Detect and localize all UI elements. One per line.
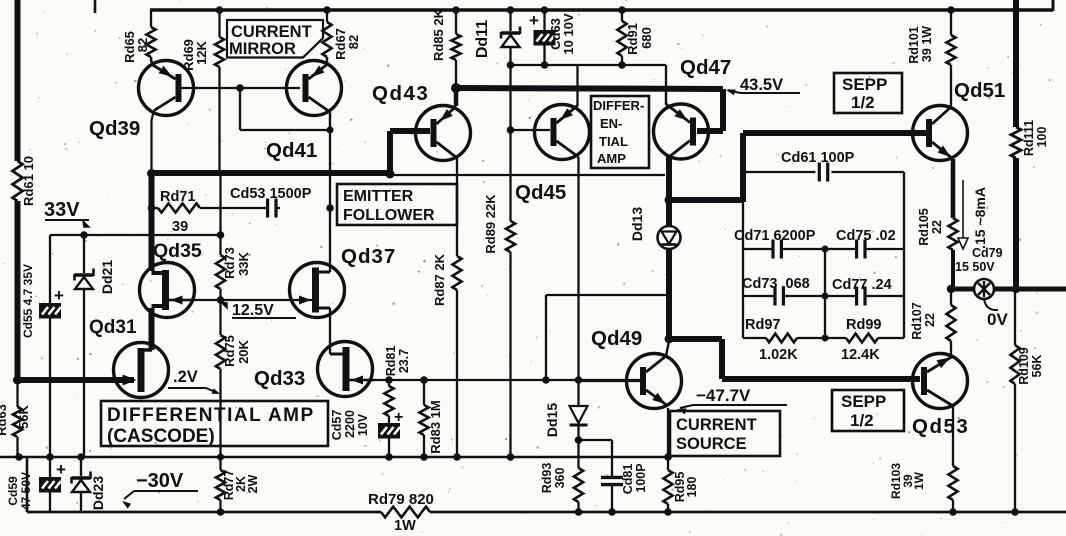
capacitor Cd73 .068 xyxy=(773,287,776,306)
node 33V / Rd73 xyxy=(217,231,225,239)
wire Rd87 column xyxy=(456,158,458,256)
node -B rail / Rd77 xyxy=(217,454,224,461)
svg-text:SOURCE: SOURCE xyxy=(676,435,747,453)
wire Rd109 column xyxy=(1014,289,1016,345)
wire Rd69 column xyxy=(218,67,220,171)
svg-text:Qd49: Qd49 xyxy=(591,327,642,350)
resistor Rd71 39 xyxy=(152,207,159,209)
svg-text:Rd79 820: Rd79 820 xyxy=(368,491,434,508)
resistor Rd105 22 xyxy=(948,218,957,250)
svg-text:Dd15: Dd15 xyxy=(544,403,560,437)
wire network right rail xyxy=(903,172,905,338)
node bottom rail / Rd93 xyxy=(575,508,583,516)
diode Dd21 (zener) xyxy=(75,273,94,276)
wire Qd31-Qd35 cascode column (thick) xyxy=(149,308,155,350)
wire network mid rail xyxy=(824,249,826,338)
svg-text:Cd75 .02: Cd75 .02 xyxy=(836,228,896,244)
resistor Rd97 1.02K xyxy=(766,334,797,343)
wire Cd55 column xyxy=(49,235,51,303)
svg-text:DIFFER-: DIFFER- xyxy=(593,98,644,113)
svg-text:Dd13: Dd13 xyxy=(629,207,645,241)
svg-text:Rd75: Rd75 xyxy=(222,335,237,367)
capacitor Cd77 .24 xyxy=(855,287,858,306)
svg-text:Cd77 .24: Cd77 .24 xyxy=(832,277,892,293)
node Rd81 top xyxy=(385,376,393,384)
node -B rail / Cd57 xyxy=(385,453,393,461)
svg-text:TIAL: TIAL xyxy=(599,134,628,149)
node 0V / Rd105 xyxy=(947,285,955,293)
svg-text:+: + xyxy=(56,460,66,479)
svg-text:Qd35: Qd35 xyxy=(153,240,202,262)
node Qd43 base corner xyxy=(386,170,395,179)
node top rail / Rd101 xyxy=(947,6,955,14)
svg-text:Rd99: Rd99 xyxy=(846,317,881,333)
wire bias to Qd51 base (thick) xyxy=(669,197,743,203)
node top rail / Rd67 xyxy=(323,6,331,14)
node bias y65 / Rd91 xyxy=(618,61,626,69)
resistor Rd79 820 1W xyxy=(381,507,430,518)
wire network left rail xyxy=(742,202,744,338)
node Rd83 top xyxy=(420,376,428,384)
resistor Rd73 33K xyxy=(219,175,221,255)
svg-text:Rd61 10: Rd61 10 xyxy=(21,156,36,206)
svg-text:Cd53 1500P: Cd53 1500P xyxy=(230,186,312,202)
node Qd47 emitter branch xyxy=(665,196,674,205)
transistor Qd37 xyxy=(290,263,345,318)
node top rail / Cd63 xyxy=(541,6,549,14)
node network row2 mid xyxy=(822,293,829,300)
resistor Rd77 2K 2W xyxy=(216,470,225,500)
transistor Qd53 xyxy=(913,354,968,409)
svg-text:1/2: 1/2 xyxy=(850,411,874,430)
svg-text:Cd59: Cd59 xyxy=(6,476,20,506)
resistor Rd89 22K xyxy=(506,221,515,252)
resistor Rd65 82 xyxy=(150,10,152,27)
wire 43.5V run (thick) xyxy=(456,88,723,89)
resistor Rd95 180 xyxy=(663,470,672,504)
svg-text:Rd81: Rd81 xyxy=(384,346,398,377)
svg-text:Rd85 2K: Rd85 2K xyxy=(431,8,446,61)
wire Qd41 collector column xyxy=(329,112,331,272)
svg-text:Cd79: Cd79 xyxy=(972,246,1003,260)
svg-text:Cd73 .068: Cd73 .068 xyxy=(742,276,810,292)
wire base bus Qd39-Qd41 xyxy=(181,87,300,89)
wire Qd51 emitter (thick) xyxy=(951,159,956,218)
transistor Qd31 xyxy=(114,343,169,398)
wire Dd21 column xyxy=(83,235,85,273)
wire Qd49 bias link xyxy=(546,294,666,296)
transistor Qd45 xyxy=(535,105,590,160)
capacitor Cd57 2200/10V xyxy=(378,423,400,439)
svg-text:AMP: AMP xyxy=(597,151,626,166)
node input/Qd31 emitter xyxy=(13,376,22,385)
svg-text:EMITTER: EMITTER xyxy=(343,188,414,205)
svg-text:47 50V: 47 50V xyxy=(19,472,33,510)
svg-text:100: 100 xyxy=(1035,127,1049,148)
resistor Rd111 100 xyxy=(1011,127,1021,158)
transistor Qd49 xyxy=(627,354,682,409)
node bottom rail / Rd109 xyxy=(1011,508,1019,516)
capacitor Cd53 1500P xyxy=(266,199,269,218)
svg-text:Qd41: Qd41 xyxy=(266,139,317,162)
transistor Qd33 xyxy=(318,342,373,397)
svg-text:56K: 56K xyxy=(16,404,31,428)
node -B rail / Rd87 xyxy=(453,453,461,461)
transistor Qd43 xyxy=(416,106,471,161)
wire mid rail -B xyxy=(0,456,668,459)
resistor Rd83 1M xyxy=(423,380,425,405)
capacitor Cd75 .02 xyxy=(855,240,858,259)
svg-text:CURRENT: CURRENT xyxy=(231,23,312,41)
node -B rail / Rd89 xyxy=(507,453,515,461)
node -B rail / Rd95 xyxy=(664,453,672,461)
wire 33V node xyxy=(50,234,221,236)
svg-text:Cd57: Cd57 xyxy=(330,410,344,441)
label box DIFFERENTIAL AMP xyxy=(591,96,649,168)
node 0V / right rail xyxy=(1012,285,1020,293)
svg-text:1.02K: 1.02K xyxy=(759,347,798,363)
svg-text:EN-: EN- xyxy=(600,116,622,131)
diode Dd13 xyxy=(658,226,681,249)
wire follower drive y173 (thick) xyxy=(149,170,155,271)
svg-text:Cd55 4.7 35V: Cd55 4.7 35V xyxy=(21,264,35,338)
node bottom rail / Rd103 xyxy=(949,508,957,516)
svg-text:12.5V: 12.5V xyxy=(232,302,274,319)
label box DIFFERENTIAL AMP CASCODE xyxy=(101,401,328,446)
svg-text:+: + xyxy=(54,286,64,305)
wire bias feed y175 xyxy=(390,174,665,176)
wire Cd61 row xyxy=(743,171,816,173)
svg-text:2200: 2200 xyxy=(343,410,357,438)
resistor Rd67 82 xyxy=(326,10,328,22)
svg-text:100P: 100P xyxy=(634,463,648,492)
resistor Rd63 56K xyxy=(16,380,18,407)
wire Qd43 base riser (thick) xyxy=(387,131,393,176)
svg-text:CURRENT: CURRENT xyxy=(676,416,757,434)
wire bias bus y65 xyxy=(511,64,667,66)
node -B rail / Rd63 xyxy=(15,453,23,461)
svg-text:10 10V: 10 10V xyxy=(561,13,576,55)
svg-text:SEPP: SEPP xyxy=(842,75,887,94)
svg-text:DIFFERENTIAL AMP: DIFFERENTIAL AMP xyxy=(107,405,315,426)
node Dd15 bottom xyxy=(575,436,583,444)
svg-text:FOLLOWER: FOLLOWER xyxy=(343,207,435,224)
capacitor Cd59 47/50V xyxy=(39,477,61,493)
svg-text:Cd71 6200P: Cd71 6200P xyxy=(734,228,816,244)
capacitor Cd61 100P xyxy=(818,163,821,182)
transistor Qd41 xyxy=(287,61,342,116)
wire 12.5V bus xyxy=(169,299,312,301)
resistor Rd103 39 1W xyxy=(952,406,954,466)
svg-text:SEPP: SEPP xyxy=(841,392,886,411)
wire Qd45 base xyxy=(511,129,551,131)
node Qd41 collector tie xyxy=(327,127,334,134)
svg-text:23.7: 23.7 xyxy=(397,349,411,373)
svg-text:.2V: .2V xyxy=(173,368,198,386)
node bottom rail / Rd95 xyxy=(664,508,672,516)
wire left input rail (thick) xyxy=(15,0,21,161)
capacitor Cd81 100P xyxy=(601,476,623,479)
svg-text:MIRROR: MIRROR xyxy=(229,40,296,58)
svg-text:15 50V: 15 50V xyxy=(955,260,995,274)
node -B rail / Rd83 xyxy=(420,453,428,461)
node Qd49 collector xyxy=(665,335,674,344)
svg-text:Cd81: Cd81 xyxy=(621,464,635,495)
svg-text:82: 82 xyxy=(135,38,150,52)
svg-text:Rd93: Rd93 xyxy=(540,463,554,494)
svg-text:20K: 20K xyxy=(236,339,251,363)
resistor Rd69 12K xyxy=(218,10,220,37)
wire Qd47 emitter to Dd13 (thick) xyxy=(666,155,672,227)
diode Dd11 (zener) xyxy=(501,31,520,34)
node Qd43 top xyxy=(451,83,461,93)
wire top supply rail xyxy=(150,8,1053,11)
svg-text:Cd61 100P: Cd61 100P xyxy=(781,150,855,166)
node -B rail / Cd59 xyxy=(46,453,54,461)
node top rail / Rd85 xyxy=(452,6,460,14)
svg-text:1W: 1W xyxy=(394,518,416,534)
svg-text:180: 180 xyxy=(685,477,699,498)
svg-text:Qd37: Qd37 xyxy=(341,245,396,268)
svg-text:Rd71: Rd71 xyxy=(160,189,195,205)
svg-text:Qd31: Qd31 xyxy=(89,317,137,338)
svg-text:Qd51: Qd51 xyxy=(954,79,1005,102)
svg-text:(CASCODE): (CASCODE) xyxy=(107,426,215,447)
resistor Rd107 22 xyxy=(950,289,952,305)
svg-text:+: + xyxy=(529,11,539,30)
node top rail / Dd11 xyxy=(507,6,515,14)
node bias y65 / Cd63 xyxy=(541,61,549,69)
wire 0V output line (thick) xyxy=(951,287,1066,292)
resistor Rd93 360 xyxy=(574,468,583,502)
svg-text:1/2: 1/2 xyxy=(851,93,875,112)
node bias riser xyxy=(542,376,550,384)
svg-text:.15 ~8mA: .15 ~8mA xyxy=(972,187,988,249)
svg-text:Rd111: Rd111 xyxy=(1022,120,1036,156)
capacitor Cd71 6200P xyxy=(771,240,774,259)
svg-text:43.5V: 43.5V xyxy=(740,76,783,94)
svg-text:Qd47: Qd47 xyxy=(680,56,731,79)
svg-text:Qd33: Qd33 xyxy=(254,367,305,390)
label box EMITTER FOLLOWER xyxy=(337,184,457,225)
svg-text:Rd83 1M: Rd83 1M xyxy=(428,400,443,453)
node -B rail / Dd23 xyxy=(77,453,85,461)
svg-text:Dd11: Dd11 xyxy=(474,20,491,58)
transistor Qd51 xyxy=(913,106,968,161)
node bottom rail / Cd81 xyxy=(608,508,616,516)
node 33V / Dd21 xyxy=(80,231,88,239)
node follower corner xyxy=(147,169,156,178)
svg-text:Rd97: Rd97 xyxy=(745,317,780,333)
resistor Rd61 10 xyxy=(13,161,23,201)
resistor Rd85 2K xyxy=(455,10,457,34)
svg-text:12.4K: 12.4K xyxy=(841,347,880,363)
svg-text:Rd63: Rd63 xyxy=(0,404,9,436)
svg-text:Rd89 22K: Rd89 22K xyxy=(483,194,498,254)
transistor Qd39 xyxy=(139,61,194,116)
node network row3 mid xyxy=(822,335,829,342)
wire Qd33 emitter bus xyxy=(350,379,640,381)
svg-text:1W: 1W xyxy=(912,471,926,490)
svg-text:Rd105: Rd105 xyxy=(917,208,931,246)
resistor Rd99 12.4K xyxy=(846,334,878,343)
wire Qd37-Qd33 link xyxy=(329,308,331,354)
resistor Rd109 56K xyxy=(1010,345,1019,384)
svg-text:Rd87 2K: Rd87 2K xyxy=(432,253,447,306)
svg-text:Rd101: Rd101 xyxy=(907,26,921,64)
svg-text:39: 39 xyxy=(172,219,188,235)
label box CURRENT MIRROR xyxy=(227,20,323,58)
svg-text:56K: 56K xyxy=(1030,355,1044,378)
svg-text:−47.7V: −47.7V xyxy=(696,386,751,405)
node top rail / Rd91 xyxy=(618,6,626,14)
resistor Rd81 23.7 xyxy=(388,380,390,386)
svg-text:0V: 0V xyxy=(987,310,1008,329)
svg-text:360: 360 xyxy=(553,468,567,489)
svg-text:Dd23: Dd23 xyxy=(90,476,106,510)
node Rd71 left xyxy=(148,204,156,212)
svg-text:2W: 2W xyxy=(246,474,260,493)
resistor Rd101 39 1W xyxy=(950,10,952,35)
diode Dd23 (zener) xyxy=(72,476,91,479)
node Cd53 right xyxy=(326,204,334,212)
wire y65 drop xyxy=(665,65,667,90)
svg-text:680: 680 xyxy=(639,27,654,49)
node top rail / right rail xyxy=(1012,6,1020,14)
svg-text:Rd91: Rd91 xyxy=(625,23,640,55)
wire Qd45 collector column xyxy=(576,65,578,106)
wire Rd97/Rd99 row xyxy=(743,337,766,339)
wire Cd71/Cd75 row xyxy=(743,248,773,250)
capacitor Cd79 15/50V xyxy=(974,279,994,299)
capacitor Cd63 10/10V xyxy=(534,30,556,46)
label box SEPP 1/2 upper xyxy=(834,73,902,113)
bias current arrow xyxy=(962,180,964,240)
svg-text:33V: 33V xyxy=(44,199,80,221)
svg-text:−30V: −30V xyxy=(136,470,184,492)
svg-text:Rd73: Rd73 xyxy=(222,247,237,279)
svg-text:+: + xyxy=(394,409,403,426)
node Qd45 base tap xyxy=(507,126,515,134)
label box SEPP 1/2 lower xyxy=(832,390,904,431)
node bottom rail / Rd77 xyxy=(217,508,225,516)
transistor Qd35 xyxy=(140,263,195,318)
node Dd15 top xyxy=(575,376,583,384)
svg-text:22: 22 xyxy=(930,220,944,234)
wire mirror tie-down xyxy=(239,88,241,130)
svg-text:12K: 12K xyxy=(194,40,209,64)
svg-text:33K: 33K xyxy=(236,251,251,275)
node mirror bases xyxy=(236,84,244,92)
diode Dd15 xyxy=(570,406,588,423)
svg-text:22: 22 xyxy=(923,313,937,327)
svg-text:Qd39: Qd39 xyxy=(89,117,140,140)
resistor Rd75 20K xyxy=(219,289,221,335)
wire output to Qd53 base (thick) xyxy=(669,336,722,342)
wire Qd49 emitter column xyxy=(667,408,669,470)
capacitor Cd55 4.7/35V xyxy=(39,303,61,319)
svg-text:10V: 10V xyxy=(356,413,370,436)
node bias y65 / Dd11 xyxy=(507,61,515,69)
label box CURRENT SOURCE xyxy=(670,411,780,456)
svg-text:Rd109: Rd109 xyxy=(1017,347,1031,385)
wire Qd43 top lead (thick) xyxy=(454,86,459,106)
wire Dd11 column xyxy=(509,48,511,221)
node top rail / Rd69 xyxy=(216,6,224,14)
svg-text:39 1W: 39 1W xyxy=(920,26,934,62)
wire Qd31 emitter feed (thick) xyxy=(15,377,134,383)
transistor Qd47 xyxy=(654,104,709,159)
resistor Rd87 2K xyxy=(452,256,461,290)
svg-text:82: 82 xyxy=(346,35,361,49)
node network row1 mid xyxy=(822,246,829,253)
wire bottom rail xyxy=(27,511,381,514)
wire Dd15 branch xyxy=(579,439,613,441)
node 12.5V xyxy=(217,296,225,304)
svg-text:Qd45: Qd45 xyxy=(515,181,566,204)
wire Cd73/Cd77 row xyxy=(743,295,775,297)
svg-text:Qd53: Qd53 xyxy=(912,415,969,438)
wire right rail (thick) xyxy=(1013,0,1019,127)
resistor Rd91 680 xyxy=(621,10,623,21)
svg-text:Rd107: Rd107 xyxy=(910,302,924,340)
svg-text:Qd43: Qd43 xyxy=(372,82,429,105)
svg-text:Dd21: Dd21 xyxy=(99,260,115,294)
